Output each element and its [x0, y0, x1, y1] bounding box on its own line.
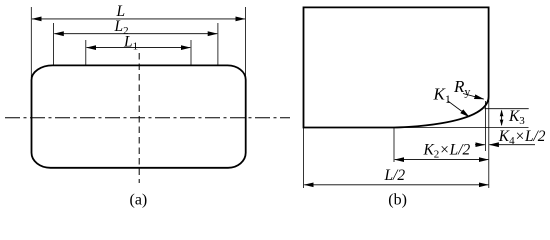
svg-text:K3: K3 — [508, 108, 525, 127]
dimension K4 left arrow — [475, 144, 485, 146]
dimension line L2 — [54, 33, 217, 35]
extension line L2 left — [53, 23, 55, 65]
svg-text:K1: K1 — [433, 85, 451, 107]
extension line L1 right — [190, 40, 192, 65]
vertical centerline (a) — [138, 53, 140, 183]
extension line L1 left — [85, 40, 87, 65]
svg-text:K4×L/2: K4×L/2 — [498, 128, 546, 147]
dimension line L — [32, 18, 245, 20]
extension line L2 right — [217, 23, 219, 65]
extension line curve end — [484, 101, 486, 151]
dimension K4 right arrow — [489, 144, 535, 146]
extension line L right — [245, 7, 247, 79]
leader Ry — [463, 94, 484, 100]
baseline extension under curve — [394, 127, 529, 129]
svg-text:L1: L1 — [123, 33, 138, 52]
svg-text:L/2: L/2 — [384, 167, 406, 184]
figure (b) quarter outline with bow curve — [304, 7, 489, 127]
dimension K2 — [395, 159, 489, 161]
svg-text:K2×L/2: K2×L/2 — [423, 141, 471, 160]
K3 top extension line — [485, 108, 529, 110]
figure (a) deck outline — [32, 65, 246, 167]
leader K1 — [448, 101, 470, 117]
horizontal centerline (a) — [5, 117, 290, 119]
dimension L/2 — [304, 184, 488, 186]
dimension line L1 — [87, 47, 191, 49]
dimension K3 — [500, 110, 504, 126]
svg-text:Ry: Ry — [453, 77, 470, 99]
extension line curve start — [393, 128, 395, 162]
extension line L left — [30, 7, 32, 78]
extension line right edge — [488, 97, 490, 188]
svg-text:(a): (a) — [130, 191, 148, 208]
extension line left edge (b) — [303, 128, 305, 188]
svg-text:(b): (b) — [388, 192, 407, 209]
